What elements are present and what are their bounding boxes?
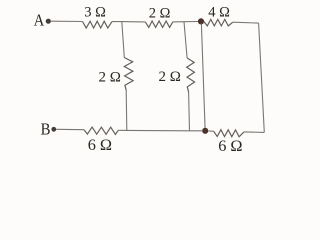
wire R6 across first and second branch joins to node D bbox=[118, 129, 202, 132]
resistor R1 3Ω bbox=[83, 21, 113, 28]
svg-text:B: B bbox=[41, 121, 51, 139]
resistor R6 6Ω (bottom left) bbox=[84, 127, 118, 134]
svg-text:2 Ω: 2 Ω bbox=[149, 6, 171, 22]
wire A to R1 bbox=[51, 20, 83, 22]
svg-text:3 Ω: 3 Ω bbox=[84, 4, 106, 20]
svg-text:2 Ω: 2 Ω bbox=[159, 69, 181, 85]
wire right side (top-right corner down to bottom-right corner) bbox=[259, 23, 265, 132]
wire node D to R7 bbox=[208, 130, 213, 132]
wire R2 to node C bbox=[173, 21, 199, 23]
terminal dot B bbox=[51, 127, 56, 132]
wire R3 to top-right corner bbox=[233, 21, 259, 24]
svg-text:6 Ω: 6 Ω bbox=[218, 136, 242, 155]
wire upper lead of R4 (first vertical branch) bbox=[122, 22, 125, 58]
node D junction dot (bottom) bbox=[202, 128, 208, 134]
wire upper lead of R5 (second vertical branch) bbox=[184, 22, 187, 58]
wire R1 to R2 (through node at top of first branch) bbox=[112, 21, 145, 23]
wire lower lead of R4 bbox=[125, 91, 128, 131]
resistor R4 2Ω (vertical, first branch) bbox=[124, 58, 133, 91]
svg-text:4 Ω: 4 Ω bbox=[208, 5, 230, 21]
wire node C to node D (third vertical branch) bbox=[201, 24, 205, 130]
wire B to R6 bbox=[56, 128, 84, 130]
resistor R5 2Ω (vertical, second branch) bbox=[187, 58, 195, 93]
svg-text:6 Ω: 6 Ω bbox=[88, 135, 112, 154]
svg-text:A: A bbox=[34, 12, 45, 30]
resistor R3 4Ω bbox=[204, 19, 233, 26]
wire lower lead of R5 bbox=[188, 93, 191, 131]
resistor R2 2Ω (top) bbox=[145, 21, 173, 27]
wire R7 to bottom-right corner bbox=[244, 131, 264, 134]
resistor R7 6Ω (bottom right) bbox=[214, 130, 244, 137]
terminal dot A bbox=[46, 19, 51, 24]
node C junction dot (top) bbox=[198, 18, 204, 24]
svg-text:2 Ω: 2 Ω bbox=[99, 69, 121, 85]
